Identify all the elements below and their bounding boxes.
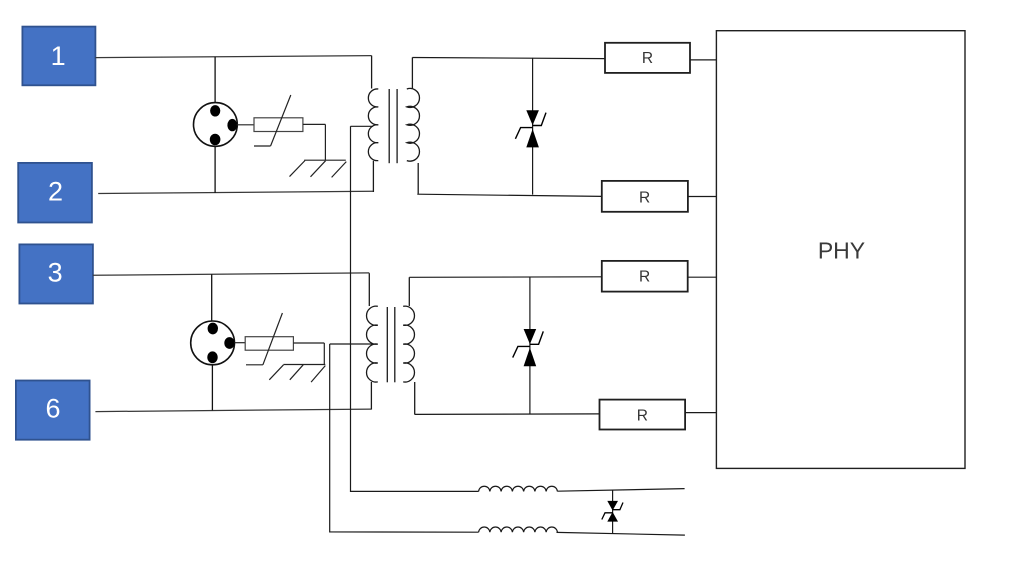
svg-text:6: 6	[45, 394, 60, 424]
svg-text:3: 3	[48, 258, 63, 288]
svg-text:R: R	[639, 190, 650, 207]
svg-text:R: R	[639, 269, 650, 286]
svg-text:1: 1	[51, 41, 66, 71]
svg-text:R: R	[637, 407, 648, 424]
svg-text:2: 2	[48, 177, 63, 207]
svg-text:R: R	[642, 50, 653, 67]
svg-text:PHY: PHY	[818, 238, 865, 264]
